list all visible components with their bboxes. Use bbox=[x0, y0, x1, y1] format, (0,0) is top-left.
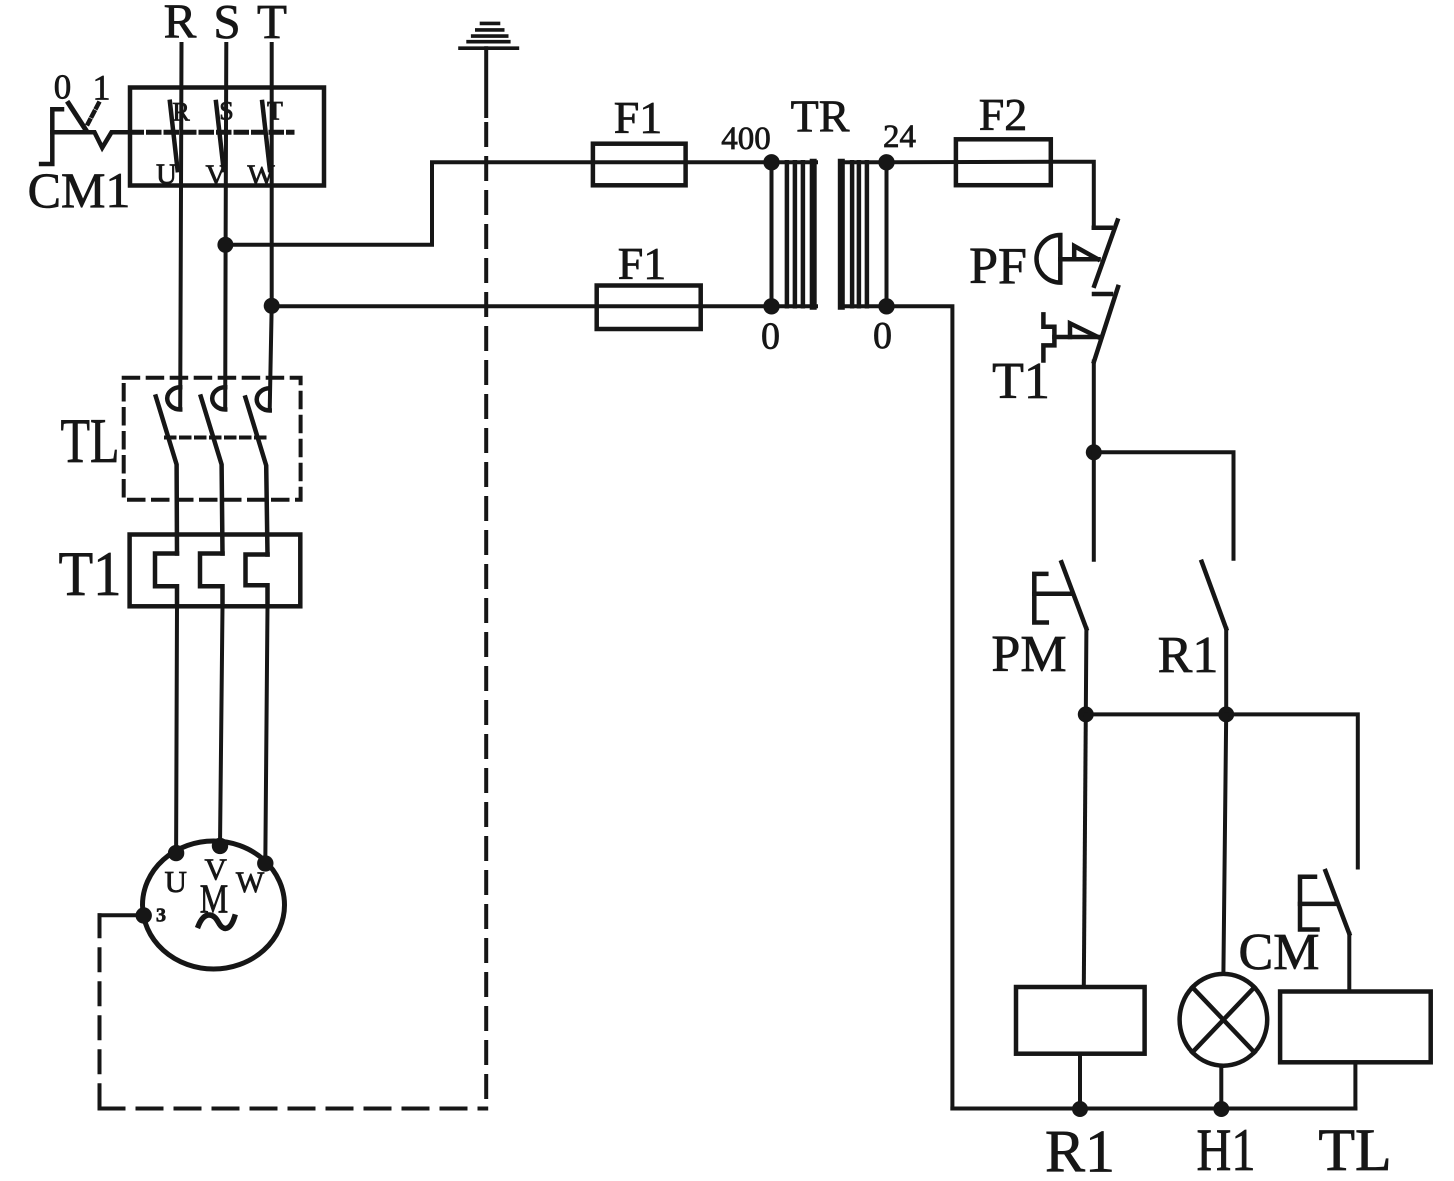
motor frame terminal dot bbox=[136, 907, 152, 923]
breaker TL pole 3 hook bbox=[257, 388, 270, 410]
svg-text:S: S bbox=[219, 97, 233, 126]
motor terminal W dot bbox=[257, 855, 273, 871]
pushbutton PM actuator bracket bbox=[1034, 574, 1047, 623]
wire T1 to motor V bbox=[220, 606, 223, 846]
pushbutton PM moving contact bbox=[1062, 562, 1087, 628]
wire ground stem bbox=[484, 48, 488, 116]
CM1 operator bracket bbox=[41, 109, 62, 164]
wire phase S vertical bbox=[225, 44, 226, 410]
svg-text:1: 1 bbox=[93, 68, 111, 108]
svg-text:PF: PF bbox=[969, 238, 1027, 295]
svg-text:T1: T1 bbox=[992, 353, 1050, 410]
svg-text:F1: F1 bbox=[614, 92, 663, 143]
wire CM contact to TL coil bbox=[1347, 934, 1351, 992]
coil TL body bbox=[1280, 992, 1431, 1063]
contact CM actuator bracket bbox=[1300, 877, 1318, 930]
wire phase R vertical bbox=[180, 44, 181, 410]
pushbutton PF NC triangle flag bbox=[1074, 246, 1098, 259]
svg-text:R1: R1 bbox=[1158, 627, 1219, 684]
svg-text:F1: F1 bbox=[618, 238, 667, 289]
svg-text:3: 3 bbox=[156, 905, 166, 927]
node transformer secondary top dot bbox=[878, 154, 894, 170]
thermal contact T1 linkage bbox=[1054, 335, 1098, 340]
node transformer secondary bottom dot bbox=[878, 298, 894, 314]
pushbutton PF mushroom head bbox=[1037, 235, 1061, 283]
node A junction dot bbox=[1086, 444, 1102, 460]
breaker TL dashed linkage bbox=[166, 436, 268, 440]
thermal overload heater 3 bbox=[246, 555, 268, 607]
svg-text:F2: F2 bbox=[979, 89, 1028, 140]
svg-text:TL: TL bbox=[1318, 1117, 1391, 1181]
breaker TL pole 1 contact bbox=[156, 397, 177, 554]
wire R1 branch down to coil bbox=[1084, 714, 1086, 987]
lamp H1 cross stroke 1 bbox=[1192, 987, 1254, 1052]
wire node A to R1 contact branch bbox=[1094, 452, 1234, 559]
wire TL coil to bottom bus bbox=[1353, 1062, 1357, 1108]
thermal contact T1 moving contact bbox=[1094, 287, 1118, 362]
switch CM1 dashed linkage bbox=[131, 130, 292, 135]
thermal overload heater 1 bbox=[155, 554, 177, 607]
svg-text:U: U bbox=[156, 159, 177, 191]
wire T1 to motor W bbox=[265, 606, 267, 863]
wire T1 to motor U bbox=[174, 606, 179, 853]
fuse F2 body bbox=[956, 139, 1051, 185]
CM1 operator lever solid bbox=[69, 103, 87, 130]
motor terminal U dot bbox=[168, 845, 184, 861]
pushbutton PF linkage bbox=[1060, 257, 1098, 262]
svg-text:S: S bbox=[213, 0, 240, 49]
pushbutton PF seat bbox=[1094, 226, 1111, 231]
wire CM1 operator to box with notch bbox=[52, 132, 130, 147]
transformer TR primary winding bbox=[772, 162, 817, 306]
lamp H1 body bbox=[1180, 974, 1268, 1066]
node PM bottom junction dot bbox=[1078, 706, 1094, 722]
wire R1 coil to bottom bus bbox=[1078, 1054, 1082, 1109]
wire protective earth dashed left vertical bbox=[98, 915, 102, 1108]
svg-text:W: W bbox=[236, 866, 265, 899]
svg-text:TR: TR bbox=[791, 91, 850, 142]
node R1 bottom bus dot bbox=[1072, 1101, 1088, 1117]
wire protective earth dashed bottom horizontal bbox=[100, 1107, 487, 1111]
svg-text:H1: H1 bbox=[1197, 1117, 1256, 1181]
wire H1 lamp to bottom bus bbox=[1219, 1066, 1223, 1109]
svg-text:R: R bbox=[164, 0, 197, 49]
node junction dot on T phase bbox=[264, 298, 280, 314]
thermal overload T1 box bbox=[130, 535, 301, 607]
svg-text:T: T bbox=[267, 97, 283, 126]
breaker TL pole 3 contact bbox=[245, 398, 267, 555]
switch CM1 box bbox=[130, 88, 324, 186]
motor M body bbox=[143, 841, 285, 969]
wire secondary 0 return bbox=[887, 306, 953, 1108]
thermal contact T1 NC triangle flag bbox=[1070, 323, 1098, 337]
breaker TL dashed box bbox=[124, 378, 301, 500]
lamp H1 cross stroke 2 bbox=[1192, 987, 1254, 1052]
breaker TL pole 2 hook bbox=[212, 387, 225, 409]
node transformer primary bottom dot bbox=[763, 298, 779, 314]
wire H1 branch down to lamp bbox=[1223, 714, 1226, 974]
wire coil bus horizontal bbox=[1086, 714, 1358, 867]
transformer TR secondary winding bbox=[841, 162, 887, 306]
breaker TL pole 1 hook bbox=[167, 387, 180, 409]
motor tilde bbox=[199, 915, 235, 928]
thermal contact T1 actuator bbox=[1043, 314, 1054, 360]
wire PM bottom bbox=[1084, 629, 1089, 715]
CM1 operator lever dotted bbox=[88, 104, 99, 124]
svg-text:U: U bbox=[165, 864, 187, 899]
switch CM1 contact S stroke bbox=[216, 102, 224, 170]
wire phase T vertical bbox=[270, 44, 272, 411]
wire T phase to lower fuse bbox=[272, 304, 772, 308]
ground symbol bbox=[460, 23, 517, 48]
pushbutton PF moving contact bbox=[1094, 221, 1117, 286]
svg-text:0: 0 bbox=[761, 316, 780, 358]
svg-text:TL: TL bbox=[61, 405, 120, 476]
svg-text:CM: CM bbox=[1239, 924, 1320, 981]
wire S phase to transformer primary top bbox=[225, 162, 771, 245]
contact CM linkage bbox=[1300, 902, 1336, 907]
wire fuse F2 to PF contact bbox=[1051, 162, 1094, 228]
switch CM1 contact T stroke bbox=[262, 102, 270, 170]
breaker TL pole 2 contact bbox=[201, 397, 223, 554]
node transformer primary top dot bbox=[763, 154, 779, 170]
fuse F1 lower body bbox=[597, 286, 701, 330]
svg-text:W: W bbox=[247, 160, 275, 192]
wire secondary 24 to fuse F2 bbox=[887, 160, 1051, 165]
svg-text:24: 24 bbox=[883, 119, 916, 155]
svg-text:0: 0 bbox=[873, 315, 892, 357]
wire bottom bus bbox=[952, 1107, 1355, 1111]
coil R1 body bbox=[1016, 987, 1145, 1054]
svg-text:400: 400 bbox=[721, 121, 771, 157]
switch CM1 contact R stroke bbox=[170, 102, 178, 170]
svg-text:R: R bbox=[172, 98, 190, 127]
svg-text:T: T bbox=[257, 0, 287, 49]
svg-text:V: V bbox=[206, 160, 227, 192]
pushbutton PM linkage bbox=[1034, 592, 1072, 597]
thermal contact T1 seat bbox=[1094, 292, 1111, 297]
svg-text:T1: T1 bbox=[59, 538, 122, 609]
wire node A down to PM contact bbox=[1092, 452, 1096, 560]
fuse F1 upper body bbox=[593, 144, 686, 186]
node R1 bottom junction dot bbox=[1218, 706, 1234, 722]
svg-text:PM: PM bbox=[991, 626, 1066, 683]
svg-text:CM1: CM1 bbox=[28, 162, 131, 218]
wire protective earth dashed vertical bbox=[484, 124, 488, 1109]
wire T1 contact down to node A bbox=[1092, 362, 1096, 453]
wire R1 contact bottom bbox=[1224, 629, 1228, 715]
motor terminal V dot bbox=[212, 838, 228, 854]
contact CM moving contact bbox=[1326, 871, 1350, 934]
thermal overload heater 2 bbox=[200, 554, 223, 607]
relay contact R1 moving contact bbox=[1202, 562, 1227, 629]
wire earth to motor frame bbox=[100, 913, 144, 917]
node junction dot on S phase bbox=[217, 237, 233, 253]
svg-text:R1: R1 bbox=[1045, 1119, 1115, 1181]
node H1 bottom bus dot bbox=[1213, 1101, 1229, 1117]
